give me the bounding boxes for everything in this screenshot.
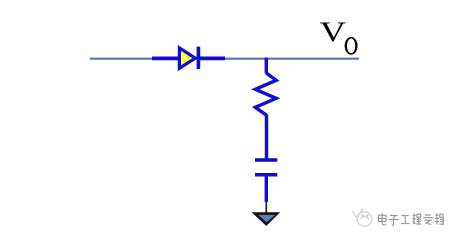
capacitor C1 — [255, 160, 277, 175]
node Vo label — [320, 17, 358, 55]
ground — [252, 201, 281, 226]
wire (diode anode lead) — [152, 57, 179, 61]
resistor R1 — [255, 73, 276, 115]
diode D1 — [179, 47, 198, 69]
wire — [90, 58, 359, 60]
svg-text:V: V — [320, 17, 347, 49]
wire (diode cathode lead) — [198, 57, 225, 61]
wire (vertical from junction) — [265, 58, 268, 74]
watermark logo — [353, 209, 372, 227]
wire (resistor to capacitor) — [265, 115, 268, 161]
wire (capacitor to ground) — [265, 175, 268, 202]
watermark text 电子工程专辑 — [379, 213, 446, 226]
